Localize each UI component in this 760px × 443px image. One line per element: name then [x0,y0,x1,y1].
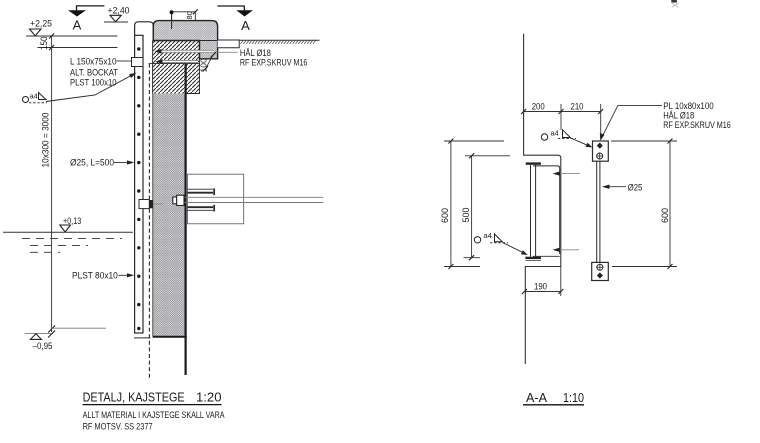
svg-text:ALT. BOCKAT: ALT. BOCKAT [70,68,118,78]
svg-text:ALLT MATERIAL I KAJSTEGE SKALL: ALLT MATERIAL I KAJSTEGE SKALL VARA [83,410,226,420]
svg-text:a4: a4 [30,92,38,101]
svg-text:RF MOTSV. SS 2377: RF MOTSV. SS 2377 [83,422,153,432]
svg-text:PL 10x80x100: PL 10x80x100 [663,101,714,111]
svg-text:600: 600 [660,208,670,223]
svg-text:–0,95: –0,95 [33,341,53,352]
svg-text:100: 100 [199,58,209,72]
svg-text:RF EXP.SKRUV M16: RF EXP.SKRUV M16 [663,120,731,130]
svg-text:150: 150 [39,37,49,51]
svg-text:10x300 = 3000: 10x300 = 3000 [41,113,51,168]
svg-text:190: 190 [534,281,547,291]
svg-text:A-A: A-A [526,390,547,405]
svg-text:a4: a4 [551,128,559,137]
svg-text:RF EXP.SKRUV M16: RF EXP.SKRUV M16 [240,58,308,68]
svg-text:600: 600 [440,208,450,223]
svg-text:PLST 80x10: PLST 80x10 [72,271,118,281]
svg-text:A: A [241,18,250,33]
svg-text:200: 200 [532,101,545,111]
svg-text:+2,25: +2,25 [30,19,52,30]
svg-text:Ø25, L=500: Ø25, L=500 [70,158,114,168]
svg-text:A: A [73,18,82,33]
svg-text:HÅL Ø18: HÅL Ø18 [663,111,694,121]
svg-text:DETALJ, KAJSTEGE: DETALJ, KAJSTEGE [83,390,185,405]
svg-text:HÅL Ø18: HÅL Ø18 [240,48,271,58]
svg-text:L 150x75x10: L 150x75x10 [70,57,117,67]
svg-text:1:10: 1:10 [563,390,584,405]
svg-text:1:20: 1:20 [196,390,222,405]
svg-text:80: 80 [185,11,194,19]
svg-text:210: 210 [571,101,584,111]
svg-text:500: 500 [461,208,471,223]
svg-text:PLST 100x10: PLST 100x10 [70,78,117,88]
svg-text:a4: a4 [484,231,492,240]
svg-text:Ø25: Ø25 [628,183,643,193]
